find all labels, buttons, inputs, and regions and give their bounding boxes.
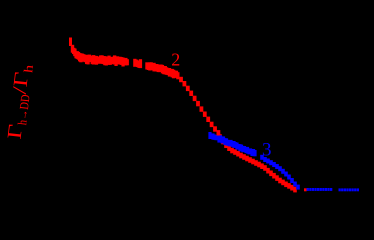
svg-text:3: 3 — [262, 140, 272, 161]
svg-text:2: 2 — [171, 49, 180, 69]
